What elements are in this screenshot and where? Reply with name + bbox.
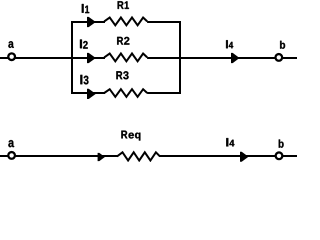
wire: left vertical junction bus joining the three parallel branches (71, 21, 73, 94)
wire: bottom branch left segment (R3 branch) (71, 92, 105, 94)
current arrow I4 (bottom circuit) (240, 152, 249, 162)
resistor Req zigzag (117, 152, 160, 160)
node b label (bottom circuit) (279, 140, 284, 148)
terminal a (top circuit), open circle (8, 53, 15, 60)
current label I4 (top circuit) (226, 40, 233, 48)
current arrow into Req (bottom circuit) (98, 153, 105, 161)
resistor label R3 (116, 71, 128, 79)
wire: right vertical junction bus joining the three parallel branches (179, 21, 181, 94)
resistor label Req (121, 131, 140, 141)
terminal a (bottom circuit), open circle (8, 152, 15, 159)
resistor R2 zigzag (104, 54, 147, 62)
resistor label R1 (118, 1, 129, 9)
current arrow I2 (87, 53, 96, 63)
node a label (bottom circuit) (8, 140, 14, 147)
wire: equivalent circuit right wire from Req to node b (y=156) (160, 155, 298, 157)
current arrow I4 (top circuit) (231, 53, 240, 63)
terminal b (bottom circuit), open circle (276, 152, 283, 159)
node b label (top circuit) (280, 41, 285, 49)
wire: middle branch left segment (R2 branch) (72, 57, 105, 59)
wire: middle branch right segment (147, 57, 181, 59)
current arrow I3 (87, 89, 96, 99)
wire: node a lead into left junction, top circuit (y=58) (0, 57, 105, 59)
current label I4 (bottom circuit) (226, 138, 234, 146)
resistor R3 zigzag (104, 89, 147, 97)
current label I1 (82, 4, 89, 13)
wire: output wire from right junction to node b (y=58) (180, 57, 297, 59)
wire: top branch right segment (147, 21, 181, 23)
current label I3 (80, 75, 88, 85)
current arrow I1 (87, 17, 96, 27)
wire: equivalent circuit left wire from node a to Req (y=156) (0, 155, 118, 157)
wire: bottom branch right segment (147, 92, 181, 94)
wire: top branch left segment (R1 branch) (71, 21, 105, 23)
terminal b (top circuit), open circle (275, 54, 282, 61)
resistor label R2 (117, 37, 129, 45)
current label I2 (80, 40, 88, 49)
node a label (top circuit) (8, 41, 13, 48)
resistor R1 zigzag (104, 18, 147, 26)
